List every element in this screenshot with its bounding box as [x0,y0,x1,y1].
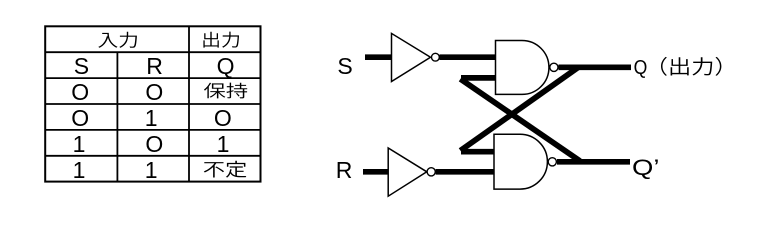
svg-text:S: S [337,53,352,79]
wire S input [365,54,393,60]
wire stub into NAND U3 lower input [461,75,496,81]
table row 3: 1 0 1 [73,131,230,157]
table header 出力 [203,32,239,48]
node S input label [337,53,352,79]
svg-text:1: 1 [73,157,86,183]
svg-text:1: 1 [145,157,158,183]
wire cross feedback Q' to U3 input (diagonal) [460,79,580,161]
wire Q output [559,64,632,70]
wire U2 output to NAND U4 [436,169,494,175]
wire Q' output [557,159,630,165]
node Q output label kanji （出力） [661,57,721,76]
svg-text:Q’: Q’ [632,155,659,180]
wire cross feedback Q to U4 input (diagonal) [460,68,578,151]
table row 1: 0 0 保持 [71,79,163,105]
svg-text:R: R [146,53,163,79]
wire U1 output to NAND U3 [440,54,496,60]
svg-text:R: R [336,157,353,183]
svg-text:Q: Q [217,53,235,79]
NAND gate U3 [496,41,559,95]
table row 4: 1 1 不定 [73,157,158,183]
svg-text:O: O [71,79,89,105]
svg-text:S: S [74,53,89,79]
table column labels S R Q [74,53,235,79]
truth table frame [45,26,260,181]
node R input label [336,157,353,183]
NAND gate U4 [494,134,556,189]
svg-text:1: 1 [73,131,86,157]
table header 入力 [98,32,137,48]
svg-text:1: 1 [145,105,158,131]
wire R input [363,169,390,175]
svg-text:O: O [214,105,232,131]
table row 2: 0 1 0 [71,105,231,131]
svg-text:O: O [145,131,163,157]
inverter U1 (S) [392,33,440,81]
svg-text:Q: Q [634,57,648,80]
svg-text:1: 1 [217,131,230,157]
inverter U2 (R) [388,148,435,196]
node Q output label [634,57,648,80]
wire stub into NAND U4 upper input [461,149,495,155]
svg-text:O: O [71,105,89,131]
node Q' output label [632,155,659,180]
svg-text:O: O [145,79,163,105]
